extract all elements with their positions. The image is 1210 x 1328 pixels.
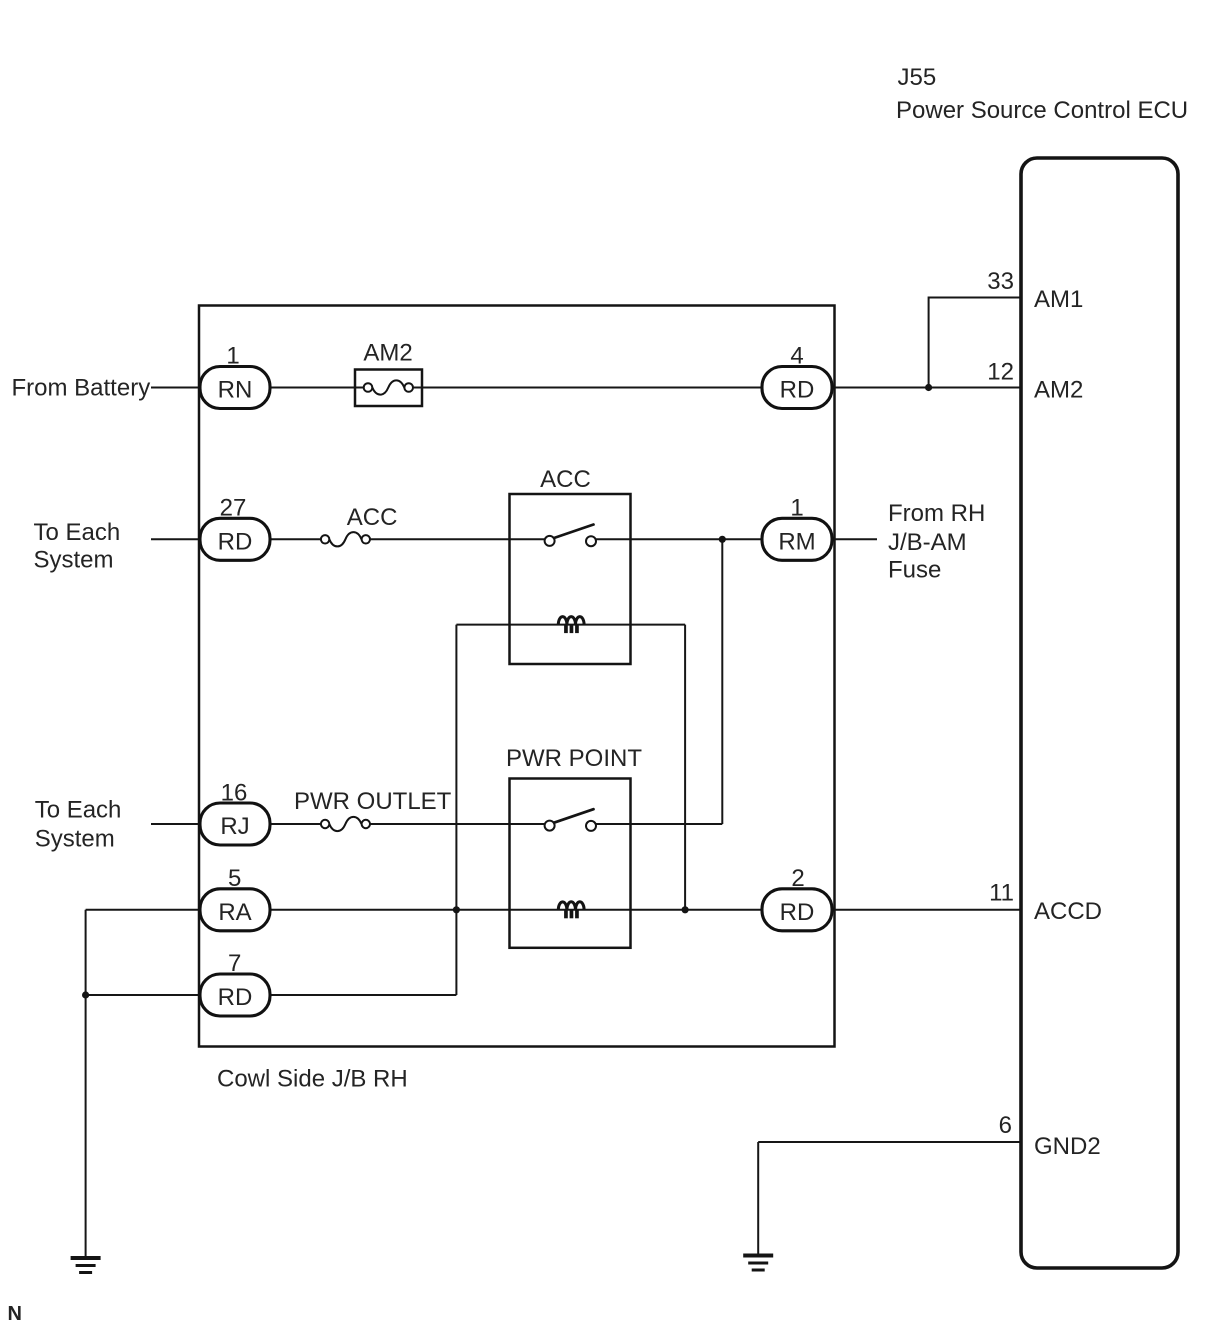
svg-text:2: 2: [791, 865, 804, 892]
svg-text:To Each: To Each: [34, 519, 121, 546]
svg-text:J/B-AM: J/B-AM: [888, 529, 967, 556]
connector pin 4 RD: [762, 343, 832, 409]
svg-text:1: 1: [790, 495, 803, 522]
svg-text:7: 7: [228, 950, 241, 977]
fuse AM2: [355, 340, 422, 407]
wire: PWR OUTLET row from To Each System to switch: [151, 823, 722, 825]
relay PWR POINT coil: [558, 902, 584, 919]
svg-text:AM2: AM2: [1034, 377, 1083, 404]
svg-text:RD: RD: [218, 529, 253, 556]
wire: From Battery row to RD4 and ECU AM2: [151, 387, 1021, 389]
wire: GND2 ground drop: [757, 1142, 759, 1256]
svg-text:RM: RM: [778, 529, 815, 556]
wire: ACC row from To Each System to RM: [151, 538, 877, 540]
svg-text:5: 5: [228, 865, 241, 892]
svg-text:RD: RD: [780, 899, 815, 926]
svg-text:AM2: AM2: [363, 340, 412, 367]
svg-text:RN: RN: [218, 377, 253, 404]
svg-text:12: 12: [987, 359, 1014, 386]
svg-text:From RH: From RH: [888, 500, 985, 527]
wire: left ground drop: [85, 910, 87, 1258]
svg-text:PWR OUTLET: PWR OUTLET: [294, 788, 452, 815]
svg-text:RD: RD: [780, 377, 815, 404]
wire: RA to RD2 to ECU ACCD row: [86, 909, 1021, 911]
svg-text:RD: RD: [218, 984, 253, 1011]
svg-text:27: 27: [220, 495, 247, 522]
wire: GND2 row: [758, 1141, 1021, 1143]
junction dot on left ground drop: [82, 991, 89, 998]
label To Each System (PWR OUTLET row): [35, 797, 122, 853]
svg-text:ACC: ACC: [347, 504, 398, 531]
svg-text:Cowl Side J/B RH: Cowl Side J/B RH: [217, 1066, 408, 1093]
junction box Cowl Side J/B RH: [199, 306, 835, 1047]
connector pin 1 RN: [200, 343, 270, 409]
connector pin 16 RJ: [200, 779, 270, 845]
svg-text:Power Source Control ECU: Power Source Control ECU: [896, 97, 1188, 124]
label To Each System (ACC row): [34, 519, 121, 574]
relay ACC switch: [545, 525, 596, 547]
svg-text:11: 11: [989, 880, 1014, 907]
wire: RD7 row: [86, 994, 457, 996]
relay ACC box: [510, 466, 631, 664]
wire: vertical from ACC coil right down to ACCD row: [684, 625, 686, 910]
connector pin 5 RA: [200, 865, 270, 931]
label From RH J/B-AM Fuse: [888, 500, 985, 584]
connector pin 2 RD: [762, 865, 832, 931]
wire: vertical from ACC coil left down to RD7 row: [455, 625, 457, 995]
ECU box J55 Power Source Control ECU: [1021, 158, 1178, 1268]
ground (left): [71, 1258, 101, 1273]
svg-text:N: N: [8, 1303, 22, 1325]
connector pin 7 RD: [200, 950, 270, 1016]
junction dot on AM2 feed: [925, 384, 932, 391]
svg-text:ACC: ACC: [540, 466, 591, 493]
svg-text:Fuse: Fuse: [888, 557, 941, 584]
wire: AM1 branch vertical and horizontal: [929, 298, 1021, 388]
fuse PWR OUTLET (inline): [294, 788, 452, 831]
svg-text:4: 4: [790, 343, 803, 370]
svg-text:16: 16: [221, 779, 248, 806]
wire: ACC relay coil row: [456, 624, 685, 626]
relay PWR POINT box: [506, 745, 642, 948]
fuse ACC (inline): [321, 504, 398, 546]
junction dot left on ACCD row: [453, 906, 460, 913]
relay ACC coil: [558, 617, 584, 634]
svg-text:From Battery: From Battery: [12, 375, 151, 402]
svg-text:RA: RA: [218, 899, 251, 926]
connector pin 27 RD: [200, 495, 270, 561]
relay PWR POINT switch: [545, 809, 596, 831]
svg-text:System: System: [35, 826, 115, 853]
junction dot right on ACCD row: [682, 906, 689, 913]
svg-text:6: 6: [999, 1112, 1012, 1139]
svg-text:To Each: To Each: [35, 797, 122, 824]
svg-text:J55: J55: [898, 64, 937, 91]
wire: vertical from RM row to PWR POINT switch output: [721, 539, 723, 824]
junction dot on RM row: [719, 536, 726, 543]
svg-text:System: System: [34, 547, 114, 574]
svg-text:1: 1: [226, 343, 239, 370]
svg-text:GND2: GND2: [1034, 1133, 1101, 1160]
svg-text:AM1: AM1: [1034, 286, 1083, 313]
ground (GND2): [743, 1256, 773, 1271]
svg-text:PWR POINT: PWR POINT: [506, 745, 642, 772]
connector pin 1 RM: [762, 495, 832, 561]
svg-text:ACCD: ACCD: [1034, 898, 1102, 925]
svg-text:RJ: RJ: [220, 813, 249, 840]
svg-text:33: 33: [987, 268, 1014, 295]
